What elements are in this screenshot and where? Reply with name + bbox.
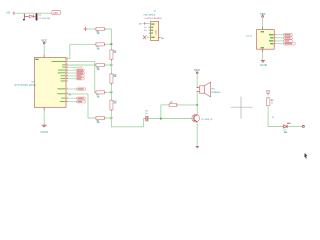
wire VCC to IC2 bbox=[262, 17, 264, 26]
svg-text:10k: 10k bbox=[97, 96, 100, 98]
svg-text:20k: 20k bbox=[114, 52, 117, 54]
wire rung5 to bus bbox=[106, 117, 112, 119]
wire IC2 GND bbox=[262, 52, 264, 60]
supply dot VCC IC1 bbox=[43, 42, 45, 44]
resistor R6 rung5 bbox=[95, 116, 106, 124]
resistor R2 rung1 bbox=[95, 27, 106, 35]
resistor R4 rung3 bbox=[95, 63, 106, 71]
LED text bbox=[287, 123, 290, 124]
svg-text:+5V: +5V bbox=[53, 11, 58, 15]
speaker SP1 bbox=[197, 82, 221, 97]
wire IC2 pin1 bbox=[276, 34, 283, 36]
wire pin to flag row4 bbox=[68, 78, 76, 80]
op IC1 body ATtiny bbox=[34, 58, 66, 108]
LED D1 bbox=[284, 125, 288, 128]
net flag box ADC3 bbox=[77, 97, 86, 99]
resistor R10 bus vertical 2 bbox=[110, 73, 117, 85]
junction rung5 bbox=[110, 117, 112, 119]
capacitor C1 bbox=[23, 14, 26, 19]
net flag box AREF bbox=[77, 88, 86, 90]
wire to R7 left bbox=[161, 104, 168, 106]
svg-text:USB: USB bbox=[156, 30, 158, 35]
wire pin AREF to flag bbox=[68, 88, 77, 90]
wire rung2 feed bbox=[68, 44, 94, 58]
pin IC1 GND bottom bbox=[43, 107, 45, 110]
wire IC2 pin2 bbox=[276, 37, 283, 39]
IC2 pin name GND inside bbox=[261, 47, 264, 48]
svg-text:SPEAKER: SPEAKER bbox=[211, 91, 221, 94]
diode D1 bbox=[29, 15, 35, 18]
junction rung3 bbox=[110, 64, 112, 66]
wire bus seg5 bbox=[110, 92, 112, 99]
X1 pin names inside (green) bbox=[151, 23, 154, 38]
IC1 pin name left bbox=[35, 59, 38, 60]
wire R7 to collector node bbox=[178, 104, 197, 106]
pin IC2 GND bottom bbox=[262, 49, 264, 52]
ground (blue) under C1 bbox=[23, 19, 25, 21]
wire bus seg3 bbox=[110, 65, 112, 73]
wire emitter down bbox=[196, 122, 198, 146]
svg-text:1k: 1k bbox=[271, 103, 273, 105]
ground GND under IC1 bbox=[42, 125, 47, 126]
svg-text:1u: 1u bbox=[145, 113, 147, 115]
ground under IC2 bbox=[261, 61, 265, 62]
wire rung3 feed bbox=[68, 64, 94, 66]
net flag +5V box bbox=[52, 11, 61, 15]
IC2 right pin stubs bbox=[274, 35, 276, 44]
junction base node bbox=[160, 117, 162, 119]
wire bus seg1 bbox=[110, 44, 112, 48]
svg-text:C2 100u/16V: C2 100u/16V bbox=[38, 18, 51, 20]
junction rung2 bbox=[110, 43, 112, 45]
wire X1 VCC pin bbox=[146, 23, 150, 25]
capacitor C2 bbox=[36, 13, 38, 19]
wire VCC to IC1 bbox=[43, 44, 45, 55]
mouse cursor bbox=[304, 153, 307, 159]
svg-text:10k: 10k bbox=[97, 122, 100, 124]
svg-text:10k: 10k bbox=[97, 69, 100, 71]
supply dot VCC speaker bbox=[196, 72, 198, 74]
pin X1 shield right bbox=[159, 37, 161, 39]
svg-text:ATTINY85-20SU: ATTINY85-20SU bbox=[15, 84, 37, 87]
wire IC1 GND bbox=[43, 111, 45, 125]
wire bus seg4 bbox=[110, 85, 112, 93]
resistor R9 bus vertical 1 bbox=[110, 49, 117, 61]
wire bus seg6 bbox=[110, 111, 112, 118]
wire rung2 to bus bbox=[106, 43, 112, 45]
transistor T1 bbox=[192, 114, 214, 122]
wire bus bottom to cap bbox=[111, 118, 145, 127]
svg-text:P0: P0 bbox=[69, 94, 71, 96]
op IC2 body bbox=[257, 30, 275, 50]
junction rung4 bbox=[110, 91, 112, 93]
ground cross X1 bbox=[143, 36, 146, 40]
IC2 pin names inside (green) bbox=[269, 34, 274, 44]
supply symbol +5V bbox=[12, 11, 15, 15]
svg-text:VCC: VCC bbox=[194, 68, 200, 72]
wire rung4 feed bbox=[68, 61, 95, 92]
net flag box PB1 bbox=[76, 78, 84, 80]
wire rung1 to bus bbox=[106, 29, 112, 44]
net flag MOSI bbox=[284, 37, 293, 40]
wire X1 GND pin bbox=[146, 36, 150, 38]
net flag SCK bbox=[284, 40, 293, 43]
resistor R7 bbox=[168, 102, 178, 107]
svg-text:CONN-USB-MINI: CONN-USB-MINI bbox=[144, 18, 161, 20]
supply cross at rung1 bbox=[84, 27, 88, 31]
junction collector node bbox=[196, 104, 198, 106]
wire rung3 to bus bbox=[106, 64, 112, 66]
wire pin RESET to flag bbox=[68, 101, 77, 103]
wire R8 to LED bbox=[268, 106, 283, 127]
connector X1 body bbox=[151, 21, 159, 40]
svg-text:X1: X1 bbox=[154, 11, 156, 13]
net flag box PB4 bbox=[76, 72, 84, 74]
svg-text:10k: 10k bbox=[97, 33, 100, 35]
wire rung4 to bus bbox=[106, 91, 112, 93]
wire IC2 pin4 bbox=[276, 43, 283, 45]
net flag box PB5 bbox=[76, 69, 84, 71]
svg-text:D1: D1 bbox=[272, 117, 274, 119]
svg-text:IC2 04: IC2 04 bbox=[246, 35, 253, 37]
svg-text:20k: 20k bbox=[114, 103, 117, 105]
ground (blue) under C2 bbox=[36, 19, 38, 21]
pad ring end bbox=[302, 125, 304, 127]
svg-text:GND: GND bbox=[260, 63, 267, 67]
wire LED to pad bbox=[288, 126, 303, 128]
resistor R8 bbox=[267, 97, 274, 106]
net flag MISO bbox=[284, 34, 293, 37]
capacitor C3 bbox=[145, 111, 148, 122]
resistor R3 rung2 bbox=[95, 43, 106, 51]
wire pin to flag row2 bbox=[68, 72, 76, 74]
svg-text:D+: D+ bbox=[145, 30, 147, 32]
wire rung1 left bbox=[87, 28, 94, 30]
wire cap to base bbox=[148, 118, 194, 120]
wire IC2 pin3 bbox=[276, 40, 283, 42]
resistor R11 bus vertical 3 bbox=[110, 99, 117, 111]
supply dot VCC IC2 bbox=[262, 16, 264, 18]
IC1 pin names right (green) bbox=[52, 61, 66, 102]
IC2 pin name VCC inside bbox=[261, 31, 264, 32]
wire pin to flag row1 bbox=[68, 69, 76, 71]
resistor R5 rung4 bbox=[95, 91, 106, 99]
wire base node up bbox=[160, 105, 162, 119]
svg-text:20k: 20k bbox=[114, 76, 117, 78]
connector pad top right bbox=[267, 90, 270, 93]
wire bus seg2 bbox=[110, 61, 112, 65]
wire VCC to speaker bbox=[196, 74, 198, 88]
ground at emitter bbox=[196, 147, 199, 148]
wire power rail bbox=[16, 12, 52, 14]
net flag box PB3 bbox=[76, 75, 84, 77]
svg-text:GND: GND bbox=[41, 130, 49, 134]
wire pin to flag row3 bbox=[68, 75, 76, 77]
wire rung5 feed bbox=[68, 94, 94, 118]
pin IC1 VCC bbox=[43, 55, 45, 58]
svg-text:SP1: SP1 bbox=[211, 89, 215, 91]
svg-text:USB_MINI-B: USB_MINI-B bbox=[143, 14, 156, 16]
svg-text:10k: 10k bbox=[97, 48, 100, 50]
pin X1 ID bbox=[149, 32, 151, 34]
pin IC2 VCC bbox=[262, 27, 264, 30]
wire speaker to collector node bbox=[196, 92, 198, 115]
sheet crosshair bbox=[231, 97, 253, 119]
svg-text:T1 L-NPN_SO: T1 L-NPN_SO bbox=[201, 119, 214, 121]
net flag RESET bbox=[284, 43, 296, 46]
svg-text:+5V: +5V bbox=[6, 12, 11, 14]
wire stub pin PB2 bbox=[68, 66, 80, 68]
wire red branch bbox=[25, 15, 29, 17]
wire pin ADC3 to flag bbox=[68, 97, 77, 99]
pin X1 D- bbox=[149, 26, 151, 28]
pin pad stub bbox=[267, 93, 269, 95]
pin X1 D+ bbox=[149, 29, 151, 31]
net flag box RESET bbox=[77, 101, 86, 103]
IC1 right pin stubs bbox=[66, 58, 68, 101]
supply arrow X1 VCC bbox=[143, 22, 146, 25]
svg-text:R7: R7 bbox=[170, 102, 172, 104]
